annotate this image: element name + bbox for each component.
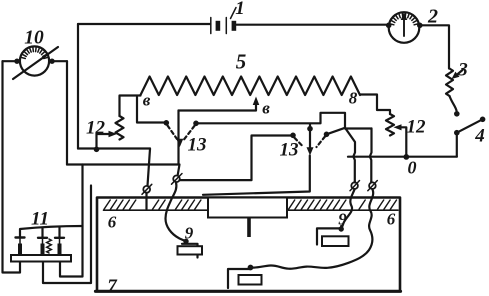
svg-text:11: 11 xyxy=(31,209,49,230)
svg-text:12: 12 xyxy=(86,118,106,139)
svg-text:5: 5 xyxy=(236,50,247,74)
svg-text:в: в xyxy=(262,99,270,118)
svg-text:0: 0 xyxy=(408,158,417,178)
svg-text:9: 9 xyxy=(185,224,194,243)
svg-text:13: 13 xyxy=(188,135,207,156)
svg-text:12: 12 xyxy=(407,117,427,138)
svg-text:в: в xyxy=(143,91,151,110)
svg-text:6: 6 xyxy=(387,210,396,229)
svg-text:9: 9 xyxy=(338,210,347,229)
svg-text:6: 6 xyxy=(108,213,117,232)
svg-text:4: 4 xyxy=(474,126,485,147)
svg-text:8: 8 xyxy=(349,89,358,108)
svg-text:2: 2 xyxy=(427,6,438,28)
svg-text:3: 3 xyxy=(457,60,468,81)
svg-text:1: 1 xyxy=(235,0,245,19)
svg-text:7: 7 xyxy=(107,276,118,296)
svg-text:10: 10 xyxy=(24,28,44,49)
svg-text:13: 13 xyxy=(280,140,299,161)
